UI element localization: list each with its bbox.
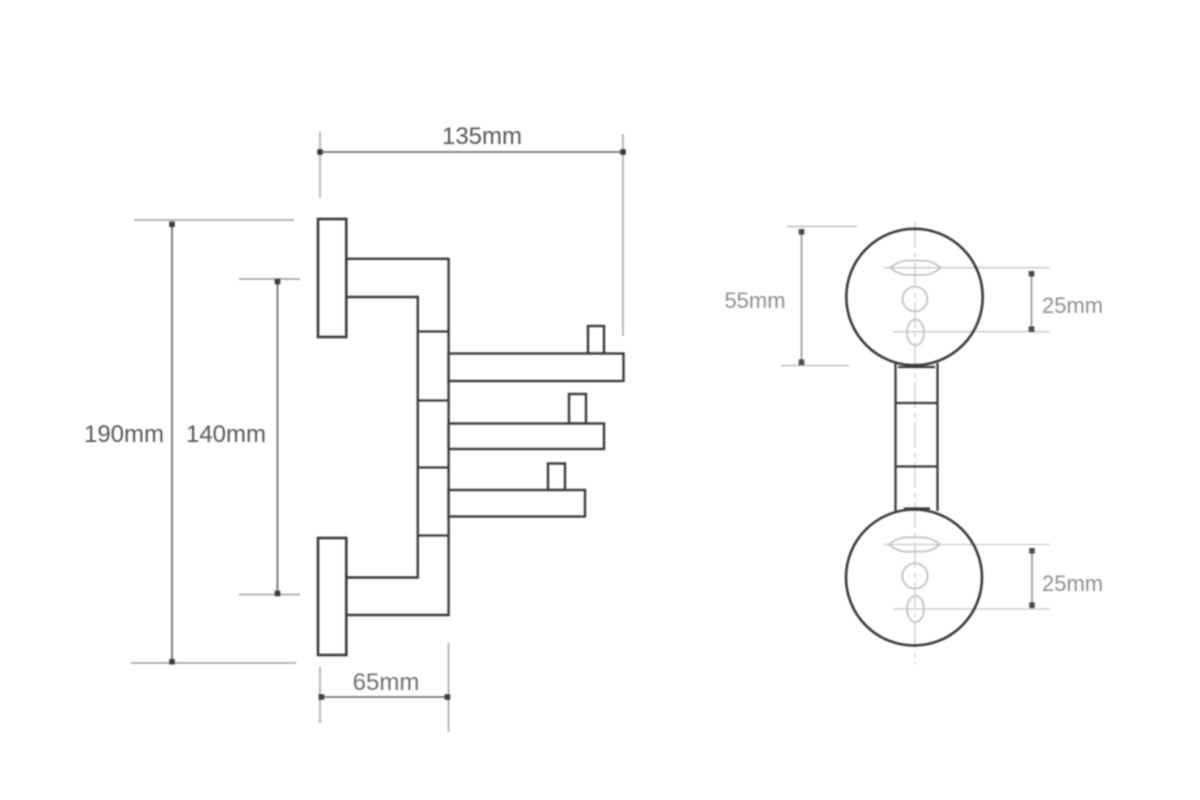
extension line 65mm right — [448, 643, 450, 732]
swivel joint division lines — [418, 332, 449, 536]
bottom rosette screw slot — [889, 537, 940, 551]
dimension 135mm — [317, 123, 626, 155]
dimension 140mm — [186, 279, 280, 596]
svg-text:65mm: 65mm — [353, 669, 420, 696]
svg-text:25mm: 25mm — [1042, 571, 1103, 596]
centerline bottom screw slot — [884, 544, 1050, 546]
dimension 25mm bottom — [1029, 548, 1103, 608]
hook 1 bar — [449, 354, 624, 382]
extension line 140mm top — [239, 278, 300, 280]
bottom rosette screw head — [902, 563, 927, 588]
bottom rosette screw hole — [907, 596, 924, 622]
centerline top screw slot — [884, 267, 1050, 269]
extension line 55mm bottom — [781, 365, 849, 367]
top rosette screw hole — [907, 320, 924, 346]
swivel post front view — [896, 363, 938, 511]
bottom rosette circle — [846, 510, 982, 646]
wall plate top — [318, 219, 346, 337]
dimension 25mm top — [1029, 271, 1103, 332]
centerline vertical front view — [914, 222, 916, 664]
centerline top screw hole — [893, 331, 1050, 333]
extension line 135mm right — [622, 134, 624, 336]
svg-text:25mm: 25mm — [1042, 293, 1103, 318]
svg-text:55mm: 55mm — [724, 288, 785, 313]
centerline bottom screw hole — [893, 608, 1050, 610]
dimension 190mm — [84, 222, 175, 665]
wire — [131, 132, 623, 732]
arm and swivel column outline — [346, 259, 449, 615]
svg-text:135mm: 135mm — [442, 123, 522, 150]
hook 1 peg — [588, 326, 604, 354]
extension line 135mm left — [319, 132, 321, 198]
extension line 140mm bottom — [239, 594, 300, 596]
top rosette screw slot — [890, 261, 941, 275]
svg-text:190mm: 190mm — [84, 421, 164, 448]
wall plate bottom — [318, 538, 346, 655]
svg-text:140mm: 140mm — [186, 421, 266, 448]
top rosette circle — [846, 229, 982, 365]
dimension 65mm — [319, 669, 451, 700]
dimension 55mm — [724, 229, 804, 365]
extension line 190mm top — [134, 219, 294, 221]
extension line 65mm left — [319, 667, 321, 723]
extension line 55mm top — [787, 226, 857, 228]
hook 3 bar — [449, 490, 585, 517]
hook 2 bar — [449, 424, 604, 450]
top rosette screw head — [903, 287, 928, 312]
hook 3 peg — [548, 464, 565, 491]
hook 2 peg — [569, 394, 586, 424]
extension line 190mm bottom — [131, 662, 296, 664]
